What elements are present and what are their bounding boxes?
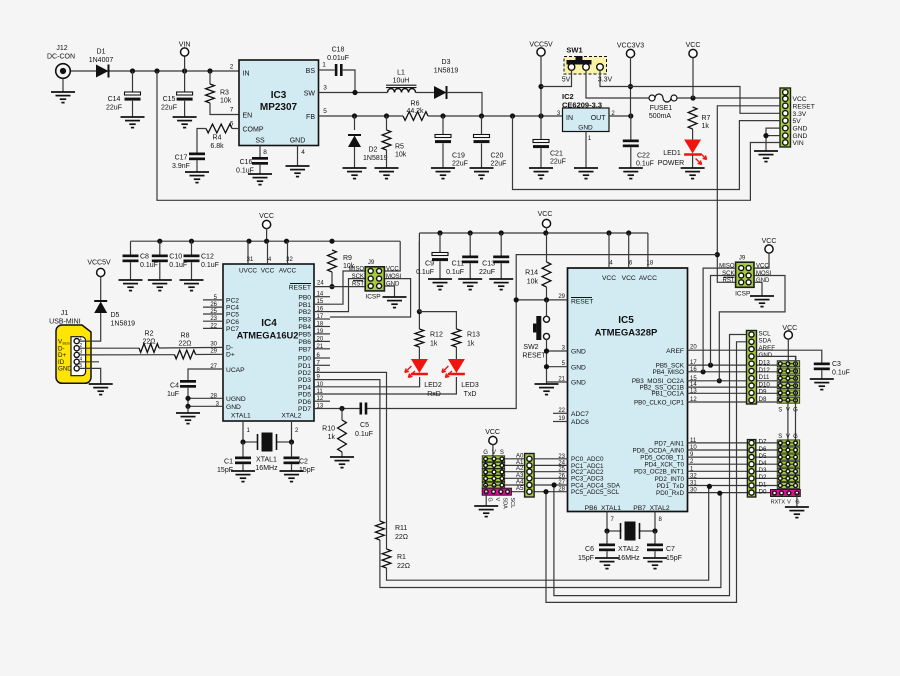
svg-text:ICSP: ICSP xyxy=(365,294,380,301)
svg-text:22Ω: 22Ω xyxy=(397,563,410,570)
svg-text:1N5819: 1N5819 xyxy=(434,68,459,75)
svg-text:7: 7 xyxy=(230,107,234,114)
svg-text:J9: J9 xyxy=(368,260,375,266)
svg-text:5V: 5V xyxy=(793,118,802,125)
svg-text:VCC: VCC xyxy=(386,267,399,273)
svg-text:PD2: PD2 xyxy=(298,370,311,377)
svg-text:RxD: RxD xyxy=(427,391,441,398)
svg-text:C4: C4 xyxy=(170,383,179,390)
svg-text:PD6_OCDA_AIN0: PD6_OCDA_AIN0 xyxy=(633,447,685,454)
svg-text:V: V xyxy=(494,498,500,502)
svg-text:C2: C2 xyxy=(299,459,308,466)
svg-text:MP2307: MP2307 xyxy=(260,102,298,113)
svg-text:GND: GND xyxy=(759,352,773,359)
svg-text:C18: C18 xyxy=(332,47,345,54)
svg-text:3.9nF: 3.9nF xyxy=(172,163,190,170)
svg-text:SCK: SCK xyxy=(352,274,364,280)
svg-text:6.8k: 6.8k xyxy=(210,143,224,150)
svg-text:J1: J1 xyxy=(61,310,69,317)
svg-text:IC4: IC4 xyxy=(261,318,277,329)
svg-text:3: 3 xyxy=(323,85,327,92)
svg-text:VCC: VCC xyxy=(782,325,797,332)
svg-text:PB4: PB4 xyxy=(298,324,311,331)
svg-text:PB7: PB7 xyxy=(298,346,311,353)
svg-text:VCC: VCC xyxy=(538,211,553,218)
svg-text:C5: C5 xyxy=(360,422,369,429)
svg-text:44.2k: 44.2k xyxy=(406,108,424,115)
svg-text:PB1: PB1 xyxy=(298,302,311,309)
svg-text:GND: GND xyxy=(756,278,770,284)
svg-text:V: V xyxy=(786,434,790,440)
svg-text:1N4007: 1N4007 xyxy=(89,57,114,64)
svg-text:D1: D1 xyxy=(759,481,767,488)
svg-text:21: 21 xyxy=(558,377,565,383)
svg-text:2: 2 xyxy=(230,64,234,71)
svg-text:D2: D2 xyxy=(369,147,378,154)
svg-text:XTAL2: XTAL2 xyxy=(281,413,301,420)
svg-text:D8: D8 xyxy=(759,396,767,403)
svg-text:VCC: VCC xyxy=(485,429,500,436)
svg-text:IN: IN xyxy=(243,71,250,78)
svg-text:G: G xyxy=(487,498,493,502)
svg-text:R2: R2 xyxy=(145,331,154,338)
svg-text:3.3V: 3.3V xyxy=(793,111,807,118)
svg-text:PB5: PB5 xyxy=(298,332,311,339)
svg-text:1k: 1k xyxy=(328,434,336,441)
svg-text:5V: 5V xyxy=(562,77,571,84)
svg-text:C16: C16 xyxy=(240,159,253,166)
svg-text:GND: GND xyxy=(571,349,586,356)
svg-text:C20: C20 xyxy=(491,153,504,160)
svg-text:SW2: SW2 xyxy=(523,344,538,351)
svg-text:R1: R1 xyxy=(397,554,406,561)
svg-text:IC3: IC3 xyxy=(271,90,287,101)
svg-text:C22: C22 xyxy=(637,153,650,160)
svg-text:1k: 1k xyxy=(430,341,438,348)
svg-text:1k: 1k xyxy=(467,341,475,348)
svg-text:SDA: SDA xyxy=(759,338,773,345)
svg-text:TX: TX xyxy=(778,500,785,506)
svg-text:C21: C21 xyxy=(550,151,563,158)
svg-text:VCC5V: VCC5V xyxy=(87,260,111,267)
svg-text:0.01uF: 0.01uF xyxy=(327,55,349,62)
svg-text:C7: C7 xyxy=(666,546,675,553)
svg-text:DC-CON: DC-CON xyxy=(47,54,75,61)
svg-text:ATMEGA328P: ATMEGA328P xyxy=(595,328,658,339)
svg-text:0.1uF: 0.1uF xyxy=(446,269,464,276)
svg-text:PC2: PC2 xyxy=(226,298,239,305)
svg-text:PB6: PB6 xyxy=(298,339,311,346)
svg-text:1uF: 1uF xyxy=(167,391,179,398)
svg-text:COMP: COMP xyxy=(243,127,264,134)
svg-text:J12: J12 xyxy=(56,45,67,52)
svg-text:D3: D3 xyxy=(759,467,767,474)
svg-text:PC7: PC7 xyxy=(226,326,239,333)
svg-text:22uF: 22uF xyxy=(550,159,566,166)
svg-text:GND: GND xyxy=(793,126,808,133)
svg-text:10uH: 10uH xyxy=(393,78,410,85)
svg-text:SW1: SW1 xyxy=(566,46,582,55)
svg-text:C12: C12 xyxy=(201,254,214,261)
svg-text:PD5_OC0B_T1: PD5_OC0B_T1 xyxy=(640,455,684,462)
svg-text:PD0_RxD: PD0_RxD xyxy=(656,490,684,497)
svg-text:22uF: 22uF xyxy=(106,105,122,112)
svg-text:16MHz: 16MHz xyxy=(255,465,278,472)
svg-text:CE6209-3.3: CE6209-3.3 xyxy=(562,101,602,110)
svg-text:R5: R5 xyxy=(395,144,404,151)
svg-text:PB0: PB0 xyxy=(298,294,311,301)
svg-text:R11: R11 xyxy=(395,525,407,532)
svg-text:ICSP: ICSP xyxy=(735,291,750,298)
svg-text:R4: R4 xyxy=(213,135,222,142)
svg-text:RESET: RESET xyxy=(571,299,593,306)
svg-text:S: S xyxy=(778,408,782,414)
svg-text:PD6: PD6 xyxy=(298,399,311,406)
svg-text:15pF: 15pF xyxy=(578,555,594,562)
svg-text:VIN: VIN xyxy=(179,42,191,49)
svg-text:RESET: RESET xyxy=(522,353,546,360)
svg-text:PC5_ADC5_SCL: PC5_ADC5_SCL xyxy=(571,489,620,496)
svg-text:RESET: RESET xyxy=(793,103,815,110)
svg-text:SCL: SCL xyxy=(759,330,772,337)
svg-text:BS: BS xyxy=(306,68,316,75)
svg-text:C1: C1 xyxy=(224,459,233,466)
svg-text:PD0: PD0 xyxy=(298,356,311,363)
svg-text:AVCC: AVCC xyxy=(279,268,297,275)
svg-text:10k: 10k xyxy=(527,279,539,286)
svg-text:PB3: PB3 xyxy=(298,317,311,324)
svg-text:R13: R13 xyxy=(467,332,480,339)
svg-text:J9: J9 xyxy=(739,256,746,262)
svg-text:G: G xyxy=(483,450,488,456)
svg-text:R10: R10 xyxy=(322,426,335,433)
svg-text:GND: GND xyxy=(290,138,306,145)
svg-text:1N5819: 1N5819 xyxy=(111,321,136,328)
svg-text:R6: R6 xyxy=(411,101,420,108)
svg-text:32: 32 xyxy=(286,257,293,263)
svg-text:D0: D0 xyxy=(759,488,767,495)
svg-text:16MHz: 16MHz xyxy=(617,555,640,562)
svg-text:LED1: LED1 xyxy=(663,150,681,157)
svg-text:C13: C13 xyxy=(482,261,495,268)
svg-text:PB4_MISO: PB4_MISO xyxy=(653,369,685,376)
svg-text:22: 22 xyxy=(210,323,217,329)
svg-text:PD3_OC2B_INT1: PD3_OC2B_INT1 xyxy=(634,469,685,476)
svg-text:500mA: 500mA xyxy=(649,113,672,120)
svg-text:PB6_XTAL1: PB6_XTAL1 xyxy=(585,505,622,512)
svg-text:D10: D10 xyxy=(759,381,771,388)
svg-text:BUS: BUS xyxy=(63,341,71,345)
svg-text:MOSI: MOSI xyxy=(386,274,402,280)
svg-text:S: S xyxy=(500,450,504,456)
svg-text:22uF: 22uF xyxy=(479,269,495,276)
svg-text:XTAL2: XTAL2 xyxy=(618,546,639,553)
svg-text:PD3: PD3 xyxy=(298,377,311,384)
svg-text:D7: D7 xyxy=(759,439,767,446)
svg-text:PD7_AIN1: PD7_AIN1 xyxy=(654,440,684,447)
svg-text:15pF: 15pF xyxy=(666,555,682,562)
svg-text:0.1uF: 0.1uF xyxy=(201,262,219,269)
svg-text:PC6: PC6 xyxy=(226,319,239,326)
svg-text:C17: C17 xyxy=(175,155,188,162)
svg-text:D4: D4 xyxy=(759,460,767,467)
svg-text:XTAL1: XTAL1 xyxy=(231,413,251,420)
svg-text:SDA: SDA xyxy=(502,498,508,510)
svg-text:C19: C19 xyxy=(452,153,465,160)
svg-text:D+: D+ xyxy=(226,352,235,359)
svg-text:ADC7: ADC7 xyxy=(571,411,589,418)
svg-text:C6: C6 xyxy=(585,546,594,553)
svg-text:31: 31 xyxy=(247,257,254,263)
svg-text:FUSE1: FUSE1 xyxy=(650,105,673,112)
svg-text:GND: GND xyxy=(571,380,586,387)
svg-text:4: 4 xyxy=(301,149,305,156)
svg-text:VCC: VCC xyxy=(793,96,807,103)
svg-text:23: 23 xyxy=(210,316,217,322)
svg-text:0.1uF: 0.1uF xyxy=(832,370,850,377)
svg-text:10k: 10k xyxy=(220,98,232,105)
svg-text:SW: SW xyxy=(304,91,316,98)
svg-text:PD1: PD1 xyxy=(298,363,311,370)
svg-text:GND: GND xyxy=(578,125,593,132)
svg-text:R12: R12 xyxy=(430,332,443,339)
svg-text:VCC5V: VCC5V xyxy=(529,42,553,49)
svg-text:PB1_OC1A: PB1_OC1A xyxy=(651,391,684,398)
svg-text:R14: R14 xyxy=(525,270,538,277)
svg-text:EN: EN xyxy=(243,113,253,120)
svg-text:30: 30 xyxy=(210,342,217,348)
svg-text:UGND: UGND xyxy=(226,396,246,403)
svg-text:XTAL1: XTAL1 xyxy=(256,457,277,464)
svg-text:VCC3V3: VCC3V3 xyxy=(617,43,644,50)
svg-text:0.1uF: 0.1uF xyxy=(636,161,654,168)
svg-text:D11: D11 xyxy=(759,374,770,381)
svg-text:L1: L1 xyxy=(397,70,405,77)
svg-text:5: 5 xyxy=(323,108,327,115)
svg-text:G: G xyxy=(793,434,798,440)
svg-text:PB0_CLKO_ICP1: PB0_CLKO_ICP1 xyxy=(634,399,685,406)
svg-text:IN: IN xyxy=(566,115,573,122)
svg-text:D1: D1 xyxy=(97,49,106,56)
svg-text:MISO: MISO xyxy=(349,267,365,273)
svg-text:D5: D5 xyxy=(759,453,767,460)
svg-text:VIN: VIN xyxy=(793,140,804,147)
svg-text:GND: GND xyxy=(226,404,241,411)
svg-text:UVCC: UVCC xyxy=(239,268,257,275)
svg-text:RST: RST xyxy=(723,278,735,284)
svg-text:D5: D5 xyxy=(111,312,120,319)
svg-text:VCC: VCC xyxy=(602,275,616,282)
svg-text:VCC: VCC xyxy=(259,213,274,220)
svg-text:D9: D9 xyxy=(759,389,767,396)
svg-text:V: V xyxy=(492,450,496,456)
svg-text:1: 1 xyxy=(322,62,326,69)
svg-text:RESET: RESET xyxy=(289,285,311,292)
svg-text:V: V xyxy=(787,500,791,506)
svg-text:VCC: VCC xyxy=(622,275,636,282)
svg-text:15pF: 15pF xyxy=(299,467,315,474)
svg-text:D13: D13 xyxy=(759,360,771,367)
svg-text:GND: GND xyxy=(58,366,72,373)
svg-text:ATMEGA16U2: ATMEGA16U2 xyxy=(237,331,299,341)
svg-text:C14: C14 xyxy=(108,96,121,103)
svg-text:VCC: VCC xyxy=(261,268,275,275)
svg-text:C9: C9 xyxy=(425,261,434,268)
svg-text:RST: RST xyxy=(352,282,364,288)
svg-text:TxD: TxD xyxy=(464,391,477,398)
svg-text:0.1uF: 0.1uF xyxy=(355,431,373,438)
svg-text:AREF: AREF xyxy=(666,348,684,355)
svg-text:22Ω: 22Ω xyxy=(395,534,408,541)
svg-text:PD5: PD5 xyxy=(298,392,311,399)
svg-text:IC5: IC5 xyxy=(618,315,634,326)
svg-text:AREF: AREF xyxy=(759,345,776,352)
svg-text:22Ω: 22Ω xyxy=(178,341,191,348)
svg-text:26: 26 xyxy=(210,302,217,308)
svg-text:PD4_XCK_T0: PD4_XCK_T0 xyxy=(644,462,684,469)
svg-text:PD1_TxD: PD1_TxD xyxy=(657,483,685,490)
svg-text:SS: SS xyxy=(255,138,265,145)
svg-text:D12: D12 xyxy=(759,367,771,374)
svg-text:D6: D6 xyxy=(759,446,767,453)
svg-text:19: 19 xyxy=(558,416,565,422)
svg-text:UCAP: UCAP xyxy=(226,367,245,374)
svg-text:D3: D3 xyxy=(442,59,451,66)
svg-text:PD2_INT0: PD2_INT0 xyxy=(655,476,685,483)
svg-text:LED3: LED3 xyxy=(461,382,479,389)
svg-text:24: 24 xyxy=(317,281,324,287)
svg-text:22uF: 22uF xyxy=(452,161,468,168)
svg-text:ADC6: ADC6 xyxy=(571,419,589,426)
svg-text:25: 25 xyxy=(210,309,217,315)
svg-text:8: 8 xyxy=(263,149,267,156)
svg-text:D-: D- xyxy=(226,345,233,352)
svg-text:0.1uF: 0.1uF xyxy=(236,168,254,175)
svg-text:22uF: 22uF xyxy=(491,161,507,168)
svg-text:GND: GND xyxy=(386,282,400,288)
svg-text:R3: R3 xyxy=(220,90,229,97)
svg-text:R9: R9 xyxy=(343,255,352,262)
svg-text:22: 22 xyxy=(558,408,565,414)
svg-text:C3: C3 xyxy=(832,361,841,368)
svg-text:PD7: PD7 xyxy=(298,406,311,413)
svg-text:PB2: PB2 xyxy=(298,309,311,316)
svg-text:C11: C11 xyxy=(452,261,464,268)
svg-text:18: 18 xyxy=(647,261,654,267)
svg-text:GND: GND xyxy=(571,364,586,371)
svg-text:PB7_XTAL2: PB7_XTAL2 xyxy=(633,505,670,512)
svg-text:R7: R7 xyxy=(702,115,711,122)
svg-text:C8: C8 xyxy=(140,254,149,261)
svg-text:A5: A5 xyxy=(516,485,524,492)
svg-text:LED2: LED2 xyxy=(424,382,442,389)
svg-text:15pF: 15pF xyxy=(217,467,233,474)
svg-text:0.1uF: 0.1uF xyxy=(140,262,158,269)
svg-text:10k: 10k xyxy=(395,152,407,159)
svg-text:29: 29 xyxy=(210,349,217,355)
svg-text:C10: C10 xyxy=(169,254,182,261)
svg-text:22uF: 22uF xyxy=(161,105,177,112)
svg-text:POWER: POWER xyxy=(658,160,684,167)
svg-text:PD4: PD4 xyxy=(298,384,311,391)
svg-text:D2: D2 xyxy=(759,474,767,481)
svg-text:PC5: PC5 xyxy=(226,312,239,319)
svg-text:S: S xyxy=(778,434,782,440)
svg-text:C15: C15 xyxy=(163,96,176,103)
svg-text:VCC: VCC xyxy=(762,238,777,245)
svg-text:1N5819: 1N5819 xyxy=(363,155,388,162)
svg-text:0.1uF: 0.1uF xyxy=(169,262,187,269)
svg-text:0.1uF: 0.1uF xyxy=(416,269,434,276)
svg-text:SCL: SCL xyxy=(509,498,515,509)
svg-text:22Ω: 22Ω xyxy=(142,339,155,346)
svg-text:29: 29 xyxy=(558,294,565,300)
svg-text:R8: R8 xyxy=(181,333,190,340)
svg-text:OUT: OUT xyxy=(591,115,607,122)
svg-text:FB: FB xyxy=(306,114,315,121)
svg-text:AVCC: AVCC xyxy=(639,275,657,282)
svg-text:USB-MINI: USB-MINI xyxy=(49,319,81,326)
svg-text:VCC: VCC xyxy=(686,42,701,49)
svg-text:1k: 1k xyxy=(702,123,710,130)
